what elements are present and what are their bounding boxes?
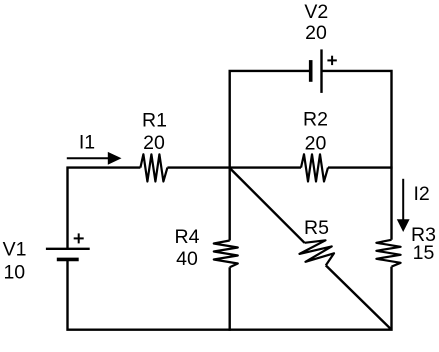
- resistor R4: [214, 241, 238, 268]
- svg-text:I1: I1: [79, 131, 95, 153]
- resistor R5: [300, 240, 335, 265]
- svg-text:10: 10: [3, 262, 25, 284]
- svg-text:R2: R2: [303, 108, 328, 130]
- svg-text:R5: R5: [304, 217, 329, 239]
- svg-text:R1: R1: [142, 109, 167, 131]
- value 20 (R2): [305, 132, 327, 154]
- resistor R3: [376, 240, 400, 267]
- current arrow I1: [67, 152, 122, 165]
- plus sign V1: [74, 233, 84, 243]
- wire main horizontal right segment: [328, 166, 393, 168]
- svg-text:V1: V1: [3, 238, 27, 260]
- resistor R1: [140, 154, 167, 181]
- value 20 (V2): [305, 22, 327, 44]
- label R3: [411, 224, 436, 246]
- value 40 (R4): [176, 248, 198, 270]
- plus sign V2: [327, 56, 336, 65]
- battery V1 negative plate: [57, 258, 79, 262]
- label R2: [303, 108, 328, 130]
- battery V2 negative plate: [309, 60, 313, 82]
- wire top wire right of V2 + right vertical upper: [322, 71, 392, 240]
- battery V1 positive plate: [46, 248, 90, 250]
- wire main horizontal middle segment: [167, 166, 301, 168]
- svg-text:20: 20: [305, 22, 327, 44]
- label R5: [304, 217, 329, 239]
- svg-text:V2: V2: [304, 1, 328, 23]
- svg-text:15: 15: [413, 242, 435, 264]
- wire diagonal upper (center node to R5): [230, 168, 305, 243]
- battery V2 positive plate: [320, 49, 322, 93]
- label I1: [79, 131, 95, 153]
- wire top-left run (top wire left of V2 and center vertical upper): [230, 71, 311, 241]
- value 15 (R3): [413, 242, 435, 264]
- wire left vertical upper (node to V1 +): [66, 167, 68, 249]
- svg-text:40: 40: [176, 248, 198, 270]
- svg-text:R4: R4: [175, 226, 200, 248]
- wire left vertical lower + bottom wire + right vertical lower: [68, 259, 392, 329]
- label I2: [413, 183, 429, 205]
- svg-text:20: 20: [143, 132, 165, 154]
- svg-text:20: 20: [305, 132, 327, 154]
- wire diagonal lower (R5 to bottom-right corner): [326, 265, 392, 329]
- value 20 (R1): [143, 132, 165, 154]
- wire main horizontal left segment: [67, 166, 141, 168]
- label R4: [175, 226, 200, 248]
- value 10 (V1): [3, 262, 25, 284]
- current arrow I2: [397, 179, 410, 232]
- wire center vertical lower: [228, 267, 230, 331]
- label V1: [3, 238, 27, 260]
- label V2: [304, 1, 328, 23]
- resistor R2: [301, 154, 328, 181]
- svg-text:I2: I2: [413, 183, 429, 205]
- label R1: [142, 109, 167, 131]
